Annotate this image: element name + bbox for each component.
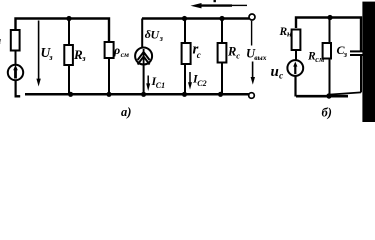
svg-text:з: з	[48, 52, 53, 62]
svg-text:с: с	[236, 51, 240, 61]
svg-text:з: з	[159, 34, 163, 43]
svg-text:u: u	[271, 64, 279, 80]
svg-text:вых: вых	[254, 53, 267, 62]
svg-text:б): б)	[322, 106, 332, 120]
svg-text:н: н	[287, 29, 292, 39]
svg-text:з: з	[81, 53, 86, 63]
svg-text:см: см	[315, 55, 325, 64]
svg-text:С2: С2	[197, 79, 206, 88]
svg-text:R: R	[227, 45, 236, 59]
svg-text:С1: С1	[156, 81, 165, 90]
svg-text:а): а)	[121, 105, 131, 119]
svg-text:ρ: ρ	[113, 43, 120, 57]
svg-text:с: с	[197, 50, 201, 60]
svg-text:см: см	[121, 50, 129, 59]
svg-text:з: з	[343, 49, 348, 59]
